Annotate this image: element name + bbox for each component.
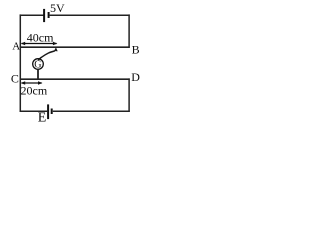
wire: potentiometer wire C-D <box>20 78 130 80</box>
battery B1 short plate <box>48 12 50 18</box>
svg-text:G: G <box>34 60 41 71</box>
svg-text:B: B <box>132 43 140 57</box>
svg-text:C: C <box>11 72 19 86</box>
svg-text:D: D <box>131 70 140 84</box>
wire: right vertical of top loop <box>128 14 130 48</box>
wire: bottom horizontal, left of battery E <box>20 110 47 112</box>
galvanometer G <box>33 59 44 71</box>
svg-text:5V: 5V <box>50 1 65 15</box>
svg-text:A: A <box>12 41 20 53</box>
battery E short plate <box>51 109 53 115</box>
wire: potentiometer wire A-B <box>20 46 130 48</box>
jockey wire from galvanometer to wire A-B <box>38 47 57 60</box>
dimension arrow 20cm <box>21 81 43 85</box>
wire: top horizontal, left of battery <box>20 14 44 16</box>
svg-text:20cm: 20cm <box>21 83 48 97</box>
svg-text:E: E <box>38 111 47 126</box>
dimension arrow 40cm <box>21 42 58 46</box>
battery B1 long plate <box>43 9 45 22</box>
battery E long plate <box>47 104 49 119</box>
wire: top horizontal, right of battery <box>50 14 130 16</box>
wire: right vertical of bottom loop <box>128 78 130 112</box>
wire: galvanometer stem to wire C-D <box>37 69 39 79</box>
svg-text:40cm: 40cm <box>27 30 54 44</box>
wire: bottom horizontal, right of battery E <box>53 110 130 112</box>
wire: left vertical rail A to C <box>19 14 21 112</box>
